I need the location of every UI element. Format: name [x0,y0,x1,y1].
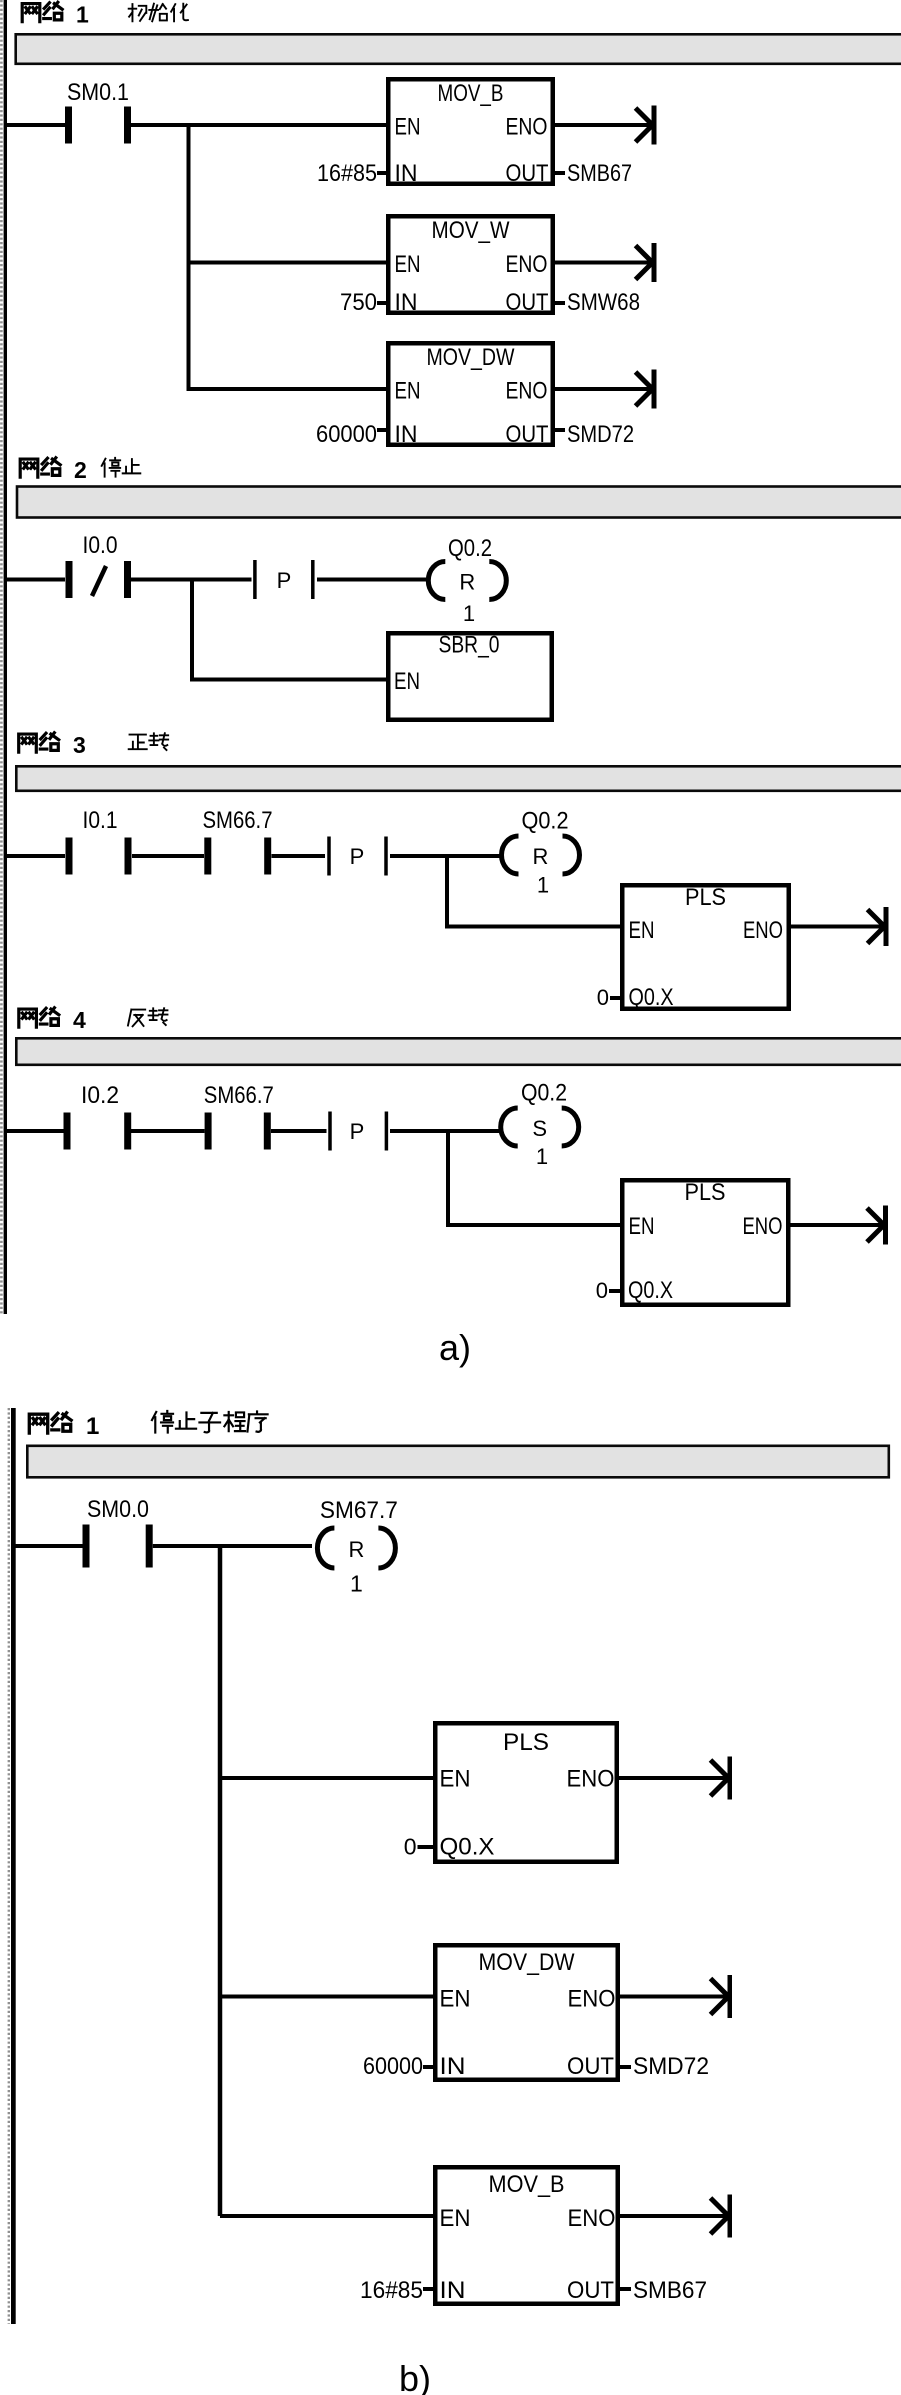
svg-text:SMD72: SMD72 [567,421,634,448]
wire: I0.2 to SM66.7 net4 [131,1129,205,1133]
network 1 (subroutine) title 停止子程序 [152,1411,268,1433]
svg-text:750: 750 [340,289,377,316]
svg-text:I0.1: I0.1 [83,807,118,834]
svg-text:R: R [348,1537,364,1562]
value 16#85 -> IN part b [360,2277,435,2304]
svg-text:16#85: 16#85 [317,160,377,187]
svg-text:PLS: PLS [503,1729,549,1756]
label Q0.2 net3 [522,808,569,835]
network 1 (subroutine) comment bar [27,1446,889,1478]
wire: PLS ENO out net4 [791,1223,886,1227]
value 60000 -> IN [316,421,386,448]
network 3 comment bar [16,766,901,791]
contact SM0.1 [65,107,131,144]
svg-text:SMW68: SMW68 [567,289,640,316]
label I0.2 [81,1082,119,1109]
svg-text:1: 1 [350,1571,363,1597]
svg-text:SMD72: SMD72 [633,2053,709,2080]
function box MOV_DW [388,343,553,448]
svg-text:SBR_0: SBR_0 [439,632,500,659]
svg-text:IN: IN [395,421,418,448]
wire: branch to MOV_DW EN [189,387,387,391]
svg-text:MOV_B: MOV_B [489,2171,565,2198]
wire: branch vertical net3 [445,854,449,929]
network 3 title 正转 [129,733,168,750]
wire: contact SM0.1 to MOV_B EN [131,123,386,127]
network 3 label 网络 3 [19,732,86,758]
wire: MOV_DW ENO out part b [620,1995,729,1999]
label Q0.2 net4 [521,1080,567,1107]
svg-text:P: P [350,1119,365,1144]
wire: I0.1 to SM66.7 [132,854,204,858]
svg-text:Q0.2: Q0.2 [521,1080,567,1107]
wire: branch vertical net1 [187,123,191,391]
wire: branch to PLS EN part b [220,1776,435,1780]
svg-text:R: R [459,570,475,595]
value 16#85 -> IN [317,160,386,187]
label I0.1 [83,807,118,834]
wire: branch to MOV_B EN part b [220,2214,435,2218]
contact P net3 [327,837,388,876]
network 4 label 网络 4 [19,1007,86,1033]
contact I0.1 [66,838,132,875]
svg-text:EN: EN [440,2205,471,2232]
svg-text:0: 0 [597,985,609,1010]
svg-text:2: 2 [74,457,87,483]
part b output arrow (MOV_B) [711,2195,733,2238]
wire: SM0.0 to coil SM67.7 [153,1544,312,1548]
svg-text:ENO: ENO [506,378,548,405]
wire: branch vertical part b [218,1544,223,2216]
svg-text:60000: 60000 [363,2053,423,2080]
coil operand 1 part b [350,1571,363,1597]
wire: MOV_B ENO out [555,123,654,127]
label SM67.7 [320,1497,398,1524]
value 750 -> IN [340,289,386,316]
function box MOV_W [388,216,553,316]
network 4 title 反转 [128,1008,167,1026]
operand 0 -> Q0.X net4 [596,1277,673,1304]
left power rail (part a) [1,0,7,1314]
contact SM66.7 net3 [204,838,271,875]
wire: P to coil net3 [390,854,502,858]
svg-text:Q0.X: Q0.X [440,1834,495,1861]
svg-text:Q0.2: Q0.2 [522,808,569,835]
svg-text:1: 1 [537,873,549,898]
svg-text:SMB67: SMB67 [567,160,632,187]
label SM0.0 [87,1496,149,1523]
svg-text:EN: EN [394,668,420,695]
svg-text:EN: EN [440,1986,471,2013]
OUT -> SMB67 [555,160,632,187]
svg-text:ENO: ENO [506,251,548,278]
svg-text:ENO: ENO [506,114,548,141]
network 1 title 初始化 [129,4,188,22]
svg-text:a): a) [439,1327,471,1368]
network 1 (subroutine) label 网络 1 [29,1413,99,1440]
contact P net4 [328,1112,388,1151]
operand 0 -> Q0.X net3 [597,984,674,1011]
svg-text:IN: IN [395,289,418,316]
contact I0.2 [64,1113,132,1150]
rung 1 output arrow (MOV_W) [636,243,657,282]
function box MOV_B part b [435,2167,618,2304]
svg-text:EN: EN [395,378,421,405]
OUT -> SMB67 part b [619,2277,707,2304]
svg-text:SMB67: SMB67 [633,2277,707,2304]
rung 1 output arrow (MOV_DW) [636,370,657,409]
svg-text:IN: IN [395,160,418,187]
label SM66.7 net4 [204,1082,274,1109]
label Q0.2 net2 [448,535,492,562]
svg-text:ENO: ENO [568,2205,616,2232]
function box PLS part b [435,1723,617,1862]
wire: MOV_W ENO out [555,261,654,265]
svg-text:1: 1 [86,1413,99,1440]
function box PLS net4 [622,1179,788,1305]
svg-text:EN: EN [395,251,421,278]
svg-text:SM0.1: SM0.1 [67,79,129,106]
wire: rail to contact I0.0 [7,578,65,582]
wire: branch vertical net4 [446,1129,450,1227]
wire: rail to contact SM0.1 [7,123,65,127]
subroutine box SBR_0 [388,632,552,720]
contact SM0.0 [83,1525,153,1568]
svg-text:MOV_W: MOV_W [432,217,510,244]
svg-text:S: S [532,1116,547,1141]
value 60000 -> IN part b [363,2053,435,2080]
svg-text:Q0.X: Q0.X [628,1277,673,1304]
caption a) [439,1327,471,1368]
wire: P to coil Q0.2 [317,578,428,582]
function box PLS net3 [622,884,789,1009]
contact SM66.7 net4 [205,1113,271,1150]
network 1 comment bar [16,34,901,64]
svg-text:SM66.7: SM66.7 [203,807,273,834]
svg-text:16#85: 16#85 [360,2277,423,2304]
svg-text:1: 1 [76,2,89,28]
wire: I0.0 to contact P [131,578,252,582]
network 1 label 网络 1 [22,2,89,28]
svg-text:EN: EN [395,114,421,141]
svg-text:ENO: ENO [743,1213,783,1240]
wire: P to coil net4 [390,1129,500,1133]
svg-text:IN: IN [440,2277,466,2304]
svg-text:3: 3 [73,732,86,758]
rung 3 output arrow (PLS) [868,907,889,946]
svg-text:R: R [533,844,549,869]
wire: branch to PLS EN net3 [447,925,622,929]
wire: branch to SBR_0 EN [192,678,388,682]
network 2 title 停止 [102,458,141,477]
coil operand 1 net2 [463,601,475,626]
wire: branch to PLS EN net4 [448,1223,622,1227]
coil Q0.2 (R) net3 [502,836,580,874]
network 2 comment bar [17,487,901,518]
operand 0 -> Q0.X part b [404,1834,495,1861]
wire: PLS ENO out part b [619,1776,729,1780]
svg-text:P: P [350,844,365,869]
svg-text:PLS: PLS [685,884,726,911]
wire: SM66.7 to P net3 [272,854,326,858]
svg-text:ENO: ENO [567,1766,615,1793]
function box MOV_DW part b [435,1945,618,2080]
svg-text:OUT: OUT [506,289,549,316]
label SM0.1 [67,79,129,106]
svg-text:OUT: OUT [506,421,549,448]
network 4 comment bar [16,1038,901,1065]
svg-text:EN: EN [629,917,655,944]
svg-text:EN: EN [629,1213,655,1240]
wire: rail to contact SM0.0 [16,1544,83,1548]
wire: rail to contact I0.2 [7,1129,64,1133]
wire: MOV_DW ENO out [555,387,654,391]
svg-text:MOV_B: MOV_B [438,80,504,107]
svg-text:EN: EN [440,1766,471,1793]
svg-text:I0.2: I0.2 [81,1082,119,1109]
svg-text:b): b) [399,2358,431,2395]
label I0.0 [83,532,118,559]
OUT -> SMD72 part b [619,2053,709,2080]
svg-text:I0.0: I0.0 [83,532,118,559]
svg-text:IN: IN [440,2053,466,2080]
OUT -> SMW68 [555,289,640,316]
svg-text:SM67.7: SM67.7 [320,1497,398,1524]
wire: branch to MOV_W EN [189,261,387,265]
part b output arrow (PLS) [711,1757,733,1800]
svg-text:60000: 60000 [316,421,377,448]
wire: branch to MOV_DW EN part b [220,1995,435,1999]
contact I0.0 (normally closed) [66,561,132,598]
coil operand 1 net3 [537,873,549,898]
wire: branch vertical net2 [190,578,194,682]
svg-text:0: 0 [404,1834,417,1860]
svg-text:MOV_DW: MOV_DW [427,344,515,371]
svg-text:1: 1 [463,601,475,626]
wire: PLS ENO out net3 [791,925,886,929]
label SM66.7 net3 [203,807,273,834]
caption b) [399,2358,431,2395]
OUT -> SMD72 [555,421,634,448]
coil SM67.7 (R) [317,1528,395,1568]
svg-text:ENO: ENO [568,1986,616,2013]
rung 1 output arrow (MOV_B) [636,106,657,145]
svg-text:P: P [277,568,292,593]
svg-text:OUT: OUT [506,160,549,187]
network 2 label 网络 2 [20,457,87,483]
svg-text:0: 0 [596,1278,608,1303]
function box MOV_B [388,79,553,187]
svg-text:SM0.0: SM0.0 [87,1496,149,1523]
wire: rail to contact I0.1 [7,854,65,858]
contact P (positive edge) net2 [253,560,314,599]
rung 4 output arrow (PLS) [867,1206,888,1245]
svg-text:OUT: OUT [567,2053,614,2080]
coil Q0.2 (R) net2 [428,562,506,600]
svg-text:PLS: PLS [685,1179,726,1206]
coil Q0.2 (S) net4 [501,1108,579,1146]
wire: SM66.7 to P net4 [271,1129,327,1133]
svg-text:1: 1 [536,1144,548,1169]
svg-text:ENO: ENO [743,917,783,944]
left power rail (part b) [9,1408,16,2324]
svg-text:OUT: OUT [567,2277,614,2304]
svg-text:Q0.2: Q0.2 [448,535,492,562]
svg-text:4: 4 [73,1007,86,1033]
wire: MOV_B ENO out part b [620,2214,729,2218]
svg-text:SM66.7: SM66.7 [204,1082,274,1109]
svg-text:Q0.X: Q0.X [629,984,674,1011]
svg-text:MOV_DW: MOV_DW [479,1949,575,1976]
coil operand 1 net4 [536,1144,548,1169]
part b output arrow (MOV_DW) [711,1975,733,2018]
